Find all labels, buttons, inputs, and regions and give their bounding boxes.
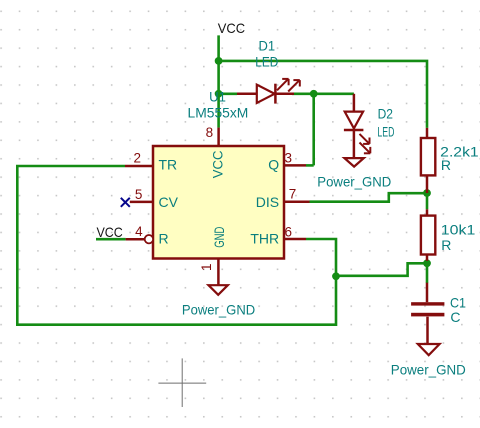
- svg-text:LED: LED: [255, 54, 278, 70]
- svg-text:VCC: VCC: [218, 20, 245, 36]
- svg-text:R: R: [441, 237, 451, 253]
- svg-text:Power_GND: Power_GND: [182, 301, 255, 317]
- svg-text:LED: LED: [377, 123, 394, 139]
- svg-text:D2: D2: [378, 105, 394, 121]
- svg-text:R: R: [159, 230, 169, 246]
- svg-text:5: 5: [135, 187, 143, 202]
- svg-text:1: 1: [199, 263, 214, 271]
- svg-text:THR: THR: [250, 230, 279, 246]
- svg-text:GND: GND: [211, 227, 227, 248]
- svg-text:2: 2: [133, 150, 141, 165]
- svg-text:Power_GND: Power_GND: [391, 362, 466, 378]
- svg-text:VCC: VCC: [210, 151, 226, 179]
- svg-text:8: 8: [206, 125, 214, 140]
- svg-text:Q: Q: [268, 157, 279, 173]
- svg-text:3: 3: [285, 150, 293, 165]
- svg-text:U1: U1: [209, 89, 226, 105]
- svg-text:C: C: [450, 309, 460, 325]
- svg-text:VCC: VCC: [97, 224, 123, 240]
- svg-text:10k1: 10k1: [441, 222, 476, 238]
- svg-text:R: R: [441, 157, 451, 173]
- svg-text:LM555xM: LM555xM: [188, 105, 249, 121]
- svg-text:CV: CV: [159, 194, 179, 210]
- svg-text:DIS: DIS: [256, 194, 279, 210]
- svg-text:Power_GND: Power_GND: [317, 173, 391, 189]
- svg-text:TR: TR: [159, 157, 178, 173]
- svg-text:D1: D1: [259, 38, 276, 54]
- svg-text:4: 4: [135, 224, 143, 239]
- svg-text:6: 6: [285, 225, 293, 240]
- svg-text:7: 7: [289, 187, 297, 202]
